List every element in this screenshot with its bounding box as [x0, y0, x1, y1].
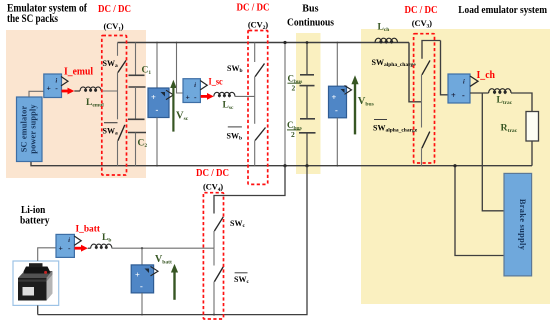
svg-text:battery: battery	[20, 216, 50, 227]
svg-text:2: 2	[292, 84, 296, 93]
svg-text:(CV3): (CV3)	[412, 18, 432, 30]
wire: bus link down to CV4 feed	[214, 166, 285, 214]
label SW_a (lower, complementary)	[103, 126, 118, 136]
label I_batt	[76, 224, 101, 235]
current sensor I_sc	[183, 79, 207, 103]
converter CV4 leg: lower switch SW_c bar	[214, 248, 223, 314]
label C1	[142, 66, 152, 77]
svg-text:Lsc: Lsc	[223, 101, 234, 112]
capacitor C_bus/2 (lower)	[299, 86, 316, 166]
wire: brake supply feed 2 (from bottom rail)	[455, 166, 504, 256]
label DC/DC (CV1)	[98, 4, 131, 15]
svg-text:+: +	[451, 91, 456, 100]
node: top rail taps	[156, 42, 338, 44]
label L_trac	[497, 96, 513, 107]
converter CV3 leg: upper switch SW_alpha_charge	[422, 41, 441, 102]
label DC/DC (CV3)	[405, 5, 438, 16]
title: Li-ion battery	[20, 205, 50, 227]
svg-text:Vsc: Vsc	[176, 111, 189, 123]
label C2	[138, 139, 148, 150]
converter box CV2 (dashed)	[248, 31, 268, 185]
current sensor I_emul	[44, 74, 68, 98]
converter CV2 leg: lower switch SW_b bar	[255, 96, 266, 165]
capacitor C1	[129, 43, 146, 88]
wire: battery positive to sensor	[38, 248, 56, 261]
wire: top rail corner down to CV3 mid input	[409, 43, 422, 102]
wire: L_trac to R_trac	[511, 93, 532, 112]
green arrow: V_batt	[171, 264, 178, 300]
wire: CV3 top node to I_ch sensor	[441, 41, 449, 95]
label DC/DC (CV4)	[196, 168, 229, 179]
converter box CV3 (dashed)	[414, 34, 435, 163]
svg-text:I_ch: I_ch	[477, 70, 496, 81]
Li-ion battery image	[13, 261, 59, 305]
label (CV4)	[203, 181, 223, 193]
title: Bus Continuous	[287, 4, 334, 29]
svg-text:+: +	[186, 93, 190, 102]
label SW_b (lower, complementary with overline)	[227, 127, 243, 142]
svg-text:Continuous: Continuous	[287, 18, 334, 29]
capacitor C2	[128, 87, 146, 166]
node: bottom rail / brake feed junction	[453, 164, 456, 167]
inductor L_ch	[375, 38, 398, 42]
wire: I_ch output to L_trac	[470, 92, 489, 94]
voltage sensor V_bus	[329, 43, 352, 166]
label (CV2)	[248, 19, 268, 31]
svg-text:Brake supply: Brake supply	[518, 199, 527, 251]
svg-text:+: +	[47, 84, 51, 93]
svg-text:(CV2): (CV2)	[248, 19, 268, 31]
background: DC bus zone (yellow strip)	[296, 33, 321, 174]
red arrow: I_batt flow	[75, 245, 88, 252]
converter CV1 leg: upper switch SW_a	[118, 43, 127, 92]
inductor L_emul	[74, 87, 117, 91]
svg-text:C1: C1	[142, 66, 152, 77]
svg-text:SC emulator: SC emulator	[20, 106, 29, 153]
label I_sc	[209, 77, 224, 88]
voltage sensor V_batt	[131, 247, 158, 315]
svg-text:Li-ion: Li-ion	[21, 205, 46, 216]
label SW_a (upper)	[103, 59, 118, 69]
red arrow: I_sc flow	[201, 93, 214, 100]
svg-text:SWb: SWb	[227, 64, 243, 74]
node: bus capacitor bottom junction	[305, 164, 308, 167]
svg-text:+: +	[135, 270, 140, 280]
SC emulator power supply U1	[17, 97, 43, 162]
label SW_alpha_charge (upper)	[372, 58, 417, 68]
node: bottom rail taps	[141, 165, 338, 316]
svg-text:(CV1): (CV1)	[104, 21, 124, 33]
label L_sc	[223, 101, 234, 112]
svg-text:Lch: Lch	[378, 23, 390, 34]
wire: battery top rail	[112, 247, 214, 249]
title: Load emulator system	[458, 4, 547, 16]
label I_emul	[64, 67, 93, 78]
label V_batt	[155, 254, 172, 266]
label SW_alpha_charge (lower, complementary with overline)	[373, 120, 418, 134]
converter CV2 leg: upper switch SW_b	[255, 43, 265, 97]
svg-text:Vbatt: Vbatt	[155, 254, 172, 266]
svg-text:-: -	[140, 281, 143, 291]
wire: brake supply feed 1 (from I_ch output)	[482, 93, 504, 211]
node: bus capacitor top junction	[306, 41, 309, 44]
svg-text:I_sc: I_sc	[209, 77, 224, 88]
converter box CV1 (dashed)	[102, 36, 127, 176]
node: top rail / bus link junction	[283, 41, 286, 44]
svg-text:I_emul: I_emul	[64, 67, 93, 78]
svg-text:+: +	[332, 92, 337, 102]
converter CV3 leg: lower switch SW_alpha_charge bar	[422, 102, 430, 166]
current sensor I_ch	[448, 74, 478, 103]
svg-text:-: -	[156, 105, 159, 115]
svg-text:I_batt: I_batt	[76, 224, 101, 235]
svg-text:DC / DC: DC / DC	[405, 5, 438, 16]
svg-text:DC / DC: DC / DC	[196, 168, 229, 179]
label C_bus/2 (lower)	[287, 120, 302, 139]
inductor L_sc	[214, 92, 255, 96]
background: SC emulator zone (peach)	[6, 30, 146, 178]
label L_ch	[378, 23, 390, 34]
wire: R_trac bottom to rail	[531, 141, 533, 166]
label C_bus/2 (upper)	[288, 74, 303, 93]
svg-text:SWc: SWc	[234, 275, 249, 285]
svg-text:+: +	[151, 92, 156, 102]
background: load emulator zone (yellow)	[361, 29, 550, 304]
label V_bus	[358, 96, 375, 108]
label DC/DC (CV2)	[237, 3, 270, 14]
wire: top DC bus rail	[118, 42, 410, 44]
svg-text:the SC packs: the SC packs	[7, 13, 59, 25]
title: Emulator system of the SC packs	[7, 2, 87, 25]
svg-text:DC / DC: DC / DC	[98, 4, 131, 15]
label (CV3)	[412, 18, 432, 30]
svg-text:Load emulator system: Load emulator system	[458, 4, 547, 16]
svg-text:power supply: power supply	[29, 104, 38, 154]
svg-text:SWc: SWc	[230, 219, 245, 229]
svg-text:+: +	[59, 244, 63, 253]
inductor L_trac	[489, 89, 512, 93]
svg-text:2: 2	[291, 130, 295, 139]
converter CV4 leg: upper switch SW_c	[214, 217, 223, 248]
svg-text:Lb: Lb	[102, 233, 111, 244]
inductor L_b	[88, 244, 112, 248]
label V_sc	[176, 111, 189, 123]
capacitor C_bus/2 (upper)	[300, 43, 315, 86]
converter box CV4 (dashed)	[203, 193, 223, 319]
label (CV1)	[104, 21, 124, 33]
svg-text:-: -	[462, 91, 465, 100]
label SW_c (lower, complementary with overline)	[234, 273, 249, 285]
wire: bus left vertical link	[284, 43, 286, 166]
wire: battery negative to bottom rail	[37, 305, 39, 314]
label R_trac	[501, 123, 518, 135]
current sensor I_batt	[56, 234, 81, 257]
wire: bottom DC bus rail	[31, 162, 532, 166]
svg-text:SWb: SWb	[227, 132, 243, 142]
brake supply unit	[504, 173, 532, 276]
label I_ch	[477, 70, 496, 81]
label L_b	[102, 233, 111, 244]
label SW_b (upper)	[227, 64, 243, 74]
svg-text:-: -	[335, 105, 338, 115]
svg-text:(CV4): (CV4)	[203, 181, 223, 193]
svg-text:Bus: Bus	[302, 4, 318, 15]
wire: top rail tap to I_sc sensor	[177, 43, 184, 94]
wire: power supply output to current sensor	[29, 91, 44, 97]
svg-text:DC / DC: DC / DC	[237, 3, 270, 14]
red arrow: I_emul flow	[62, 88, 75, 95]
voltage sensor V_sc	[148, 43, 174, 166]
green arrow: V_bus	[351, 75, 358, 134]
converter CV1 leg: lower switch SW_a bar	[104, 91, 125, 166]
green arrow: V_sc	[170, 80, 176, 132]
wire: bus to battery section vertical	[38, 166, 307, 315]
label L_emul	[86, 98, 104, 109]
label SW_c	[230, 219, 245, 229]
resistor R_trac	[526, 112, 539, 142]
node: bottom rail / bus link junction	[283, 164, 286, 167]
